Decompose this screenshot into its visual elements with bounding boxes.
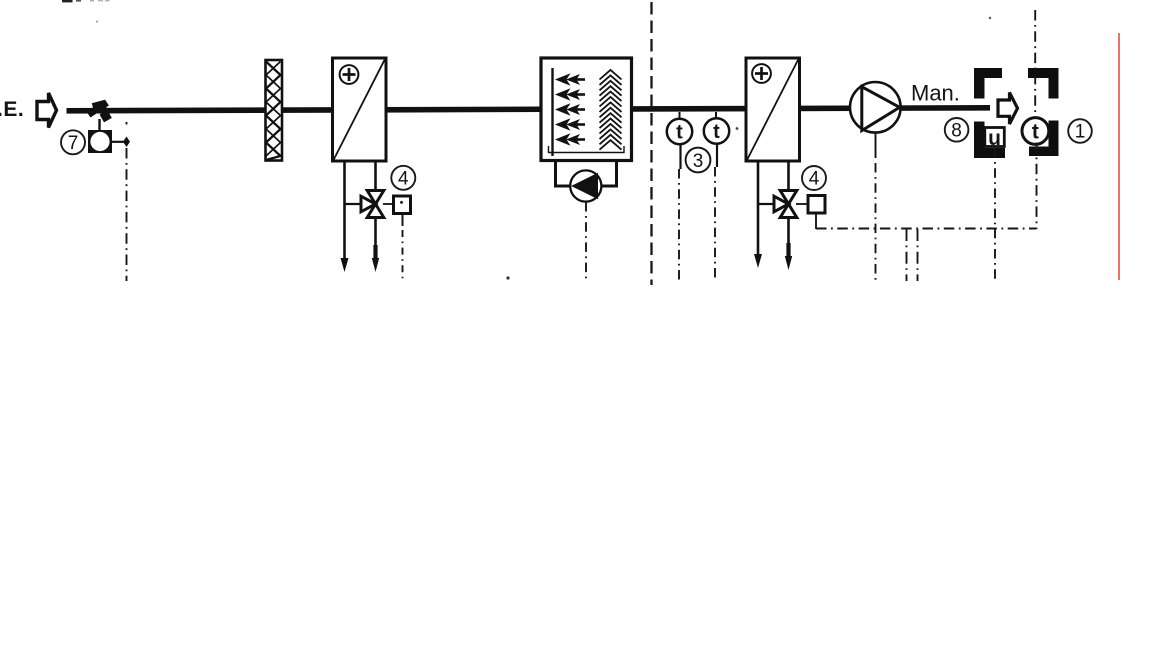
control line below room sensor t (1036, 143, 1038, 230)
control line from duct sensor t (left) (678, 169, 680, 281)
heater E2 plus symbol (752, 64, 771, 83)
stray dot (506, 276, 509, 279)
control drop from valve V2 actuator (815, 214, 817, 229)
room bracket bottom-left (974, 122, 1005, 159)
humidifier spray header (551, 68, 553, 156)
humidifier box (541, 58, 632, 161)
damper actuator stem (98, 119, 100, 131)
label 4 (valve V2) (802, 166, 826, 190)
damper actuator box (88, 130, 112, 153)
control line from valve V1 actuator (402, 215, 404, 227)
system boundary dashed line (650, 2, 652, 285)
svg-text:t: t (1032, 120, 1039, 143)
valve V1 actuator box (394, 196, 411, 214)
valve V2 actuator box (808, 196, 825, 214)
red margin line (1118, 33, 1120, 280)
valve V2 outlet pipe (785, 218, 792, 271)
duct sensor t (right) (704, 112, 729, 167)
control drop pair below fan (907, 229, 918, 281)
three-way valve V1 (361, 191, 384, 218)
outlet air arrow (998, 93, 1018, 125)
svg-text:8: 8 (951, 120, 962, 141)
heater E1 supply pipe (374, 161, 377, 191)
label 7 (61, 130, 85, 154)
valve V1 bypass line (345, 203, 363, 205)
room bracket bottom-right (1029, 121, 1059, 157)
humidifier pump loop left (556, 161, 572, 187)
control line from u sensor (994, 148, 996, 281)
valve V1 actuator link (383, 203, 394, 205)
valve V1 outlet pipe (372, 218, 379, 273)
room humidity sensor u box (985, 127, 1005, 150)
duct sensor t (left) (667, 112, 692, 169)
svg-text:u: u (988, 127, 1001, 150)
svg-text:3: 3 (693, 151, 704, 172)
heater E2 return pipe (754, 161, 762, 268)
heater E2 supply pipe (787, 161, 790, 191)
humidifier sump tray (549, 146, 625, 153)
humidifier pump loop right (601, 161, 617, 187)
valve V2 actuator link (796, 203, 808, 205)
svg-text:.E.: .E. (0, 98, 24, 121)
droplet eliminator (600, 70, 622, 150)
stray dot 4 (736, 127, 739, 130)
control line from spray pump (585, 202, 587, 281)
stray dot 3 (989, 17, 991, 19)
heating coil E1 box (333, 58, 387, 161)
svg-text:t: t (713, 121, 720, 143)
actuator link line (112, 141, 128, 143)
inlet air arrow (37, 93, 57, 128)
control line from duct sensor t (right) (714, 167, 716, 281)
spray nozzles (555, 73, 585, 146)
control line from damper actuator (126, 122, 128, 281)
svg-text:7: 7 (68, 133, 79, 154)
control bus dash-dot horizontal (816, 228, 1037, 230)
top edge scan artifact (62, 0, 110, 2)
svg-text:Man.: Man. (911, 81, 960, 106)
room temperature sensor t (1022, 118, 1049, 145)
svg-text:1: 1 (1075, 122, 1086, 143)
label 8 (945, 118, 969, 142)
supply fan (850, 82, 901, 133)
heating coil E2 box (746, 58, 800, 161)
room bracket top-right (1028, 68, 1059, 99)
svg-text:t: t (676, 122, 683, 144)
room bracket top-left (974, 68, 1002, 99)
three-way valve V2 (774, 191, 797, 218)
svg-text:4: 4 (809, 169, 820, 190)
svg-text:4: 4 (398, 169, 409, 190)
label 4 (valve V1) (391, 166, 415, 190)
label 1 (1068, 119, 1092, 143)
outside-air label .E. (0, 98, 24, 121)
heater E1 return pipe (341, 161, 349, 272)
stray dot 2 (96, 21, 98, 23)
control line from fan (875, 133, 877, 281)
heater E1 plus symbol (340, 65, 359, 84)
control line above room sensor t (1034, 10, 1036, 118)
supply duct line (67, 108, 991, 111)
spray pump (570, 170, 601, 201)
label 3 (686, 148, 711, 173)
link end diamond (123, 137, 130, 148)
filter F1 (266, 60, 283, 161)
valve V2 bypass line (758, 203, 775, 205)
damper blade (87, 100, 112, 123)
